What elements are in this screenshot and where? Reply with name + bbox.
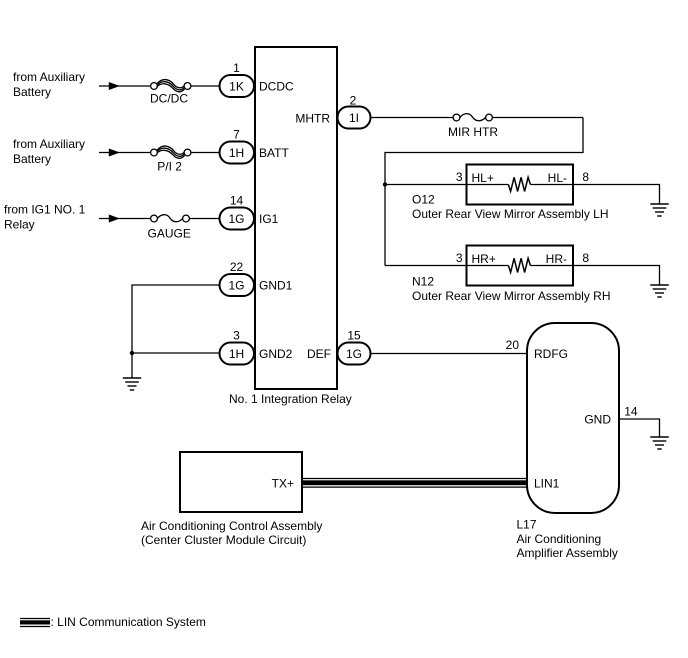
wire GND1 <box>132 285 220 353</box>
svg-text:HR+: HR+ <box>472 252 496 266</box>
wire IG1 feed <box>99 218 151 220</box>
wire MHTR to fuse <box>371 117 454 119</box>
svg-text:1G: 1G <box>346 347 362 361</box>
ground G2 <box>650 204 668 216</box>
svg-text:Outer Rear View Mirror Assembl: Outer Rear View Mirror Assembly RH <box>412 289 611 303</box>
svg-text:IG1: IG1 <box>259 212 279 226</box>
svg-text:from Auxiliary: from Auxiliary <box>13 70 85 84</box>
mirror RH box N12 <box>467 246 574 286</box>
svg-text:Outer Rear View Mirror Assembl: Outer Rear View Mirror Assembly LH <box>412 207 609 221</box>
svg-text:20: 20 <box>506 338 520 352</box>
wire MHTR down-left-down <box>385 118 583 266</box>
wire LH to ground <box>573 185 660 205</box>
svg-text:HR-: HR- <box>546 252 567 266</box>
junction mirror node <box>383 182 387 186</box>
svg-text:HL+: HL+ <box>472 171 494 185</box>
svg-text:1I: 1I <box>349 111 359 125</box>
wire to LH mirror <box>385 184 466 186</box>
svg-text:1: 1 <box>233 61 240 75</box>
svg-text:Air Conditioning Control Assem: Air Conditioning Control Assembly <box>141 519 322 533</box>
junction GND <box>130 351 134 355</box>
control assembly box <box>180 452 302 512</box>
svg-text:GND2: GND2 <box>259 347 293 361</box>
svg-text:GAUGE: GAUGE <box>148 227 191 241</box>
fuse GAUGE <box>151 215 190 222</box>
svg-text:Relay: Relay <box>4 218 35 232</box>
connector 1I <box>338 107 371 129</box>
svg-text:1K: 1K <box>229 79 244 93</box>
connector 1G (DEF) <box>338 343 371 365</box>
svg-text:DC/DC: DC/DC <box>150 92 188 106</box>
mirror LH box O12 <box>467 165 574 205</box>
wire LIN bus (striped) <box>302 479 527 488</box>
svg-text:3: 3 <box>456 251 463 265</box>
svg-text:1H: 1H <box>229 347 244 361</box>
svg-text:Battery: Battery <box>13 85 51 99</box>
wire GND2 <box>132 352 220 354</box>
svg-text:No. 1 Integration Relay: No. 1 Integration Relay <box>229 392 352 406</box>
relay U: No. 1 Integration Relay box <box>255 47 337 389</box>
ground G4 <box>650 437 668 449</box>
arrow IG1 feed <box>109 215 120 223</box>
wire to RH mirror <box>385 265 466 267</box>
svg-text:1G: 1G <box>228 212 244 226</box>
arrow DCDC feed <box>109 82 120 90</box>
svg-text:MHTR: MHTR <box>295 111 330 125</box>
wire RH to ground <box>573 266 660 286</box>
svg-text:LIN1: LIN1 <box>534 476 560 490</box>
svg-text:GND: GND <box>584 412 611 426</box>
wire to ground <box>131 353 133 378</box>
fuse MIR HTR <box>453 114 492 121</box>
svg-text:DCDC: DCDC <box>259 79 294 93</box>
amplifier L17 box <box>527 323 619 513</box>
svg-text:Amplifier Assembly: Amplifier Assembly <box>517 546 618 560</box>
svg-text:GND1: GND1 <box>259 278 293 292</box>
resistor heater LH <box>467 184 509 186</box>
svg-text:L17: L17 <box>517 518 537 532</box>
arrow BATT feed <box>109 149 120 157</box>
svg-text:TX+: TX+ <box>272 477 294 491</box>
connector 1H (GND2) <box>220 343 255 365</box>
ground G3 <box>650 285 668 297</box>
svg-text:15: 15 <box>347 329 361 343</box>
svg-text:1H: 1H <box>229 146 244 160</box>
svg-text:from Auxiliary: from Auxiliary <box>13 137 85 151</box>
wire BATT feed <box>99 152 151 154</box>
connector 1G (GND1) <box>220 274 255 296</box>
svg-text:8: 8 <box>582 170 589 184</box>
wire DCDC feed <box>99 85 151 87</box>
resistor heater RH <box>467 265 509 267</box>
svg-text:BATT: BATT <box>259 146 289 160</box>
svg-text:N12: N12 <box>412 275 434 289</box>
svg-text:(Center Cluster Module Circuit: (Center Cluster Module Circuit) <box>141 533 306 547</box>
svg-text:Air Conditioning: Air Conditioning <box>517 532 602 546</box>
svg-text:14: 14 <box>230 194 244 208</box>
connector 1G (IG1) <box>220 208 255 230</box>
connector 1H <box>220 142 255 164</box>
svg-text:14: 14 <box>624 405 638 419</box>
svg-text:2: 2 <box>350 94 357 108</box>
svg-text:DEF: DEF <box>307 347 331 361</box>
svg-text:22: 22 <box>230 260 244 274</box>
svg-text:3: 3 <box>456 170 463 184</box>
svg-text:RDFG: RDFG <box>534 347 568 361</box>
svg-text:from IG1 NO. 1: from IG1 NO. 1 <box>4 203 86 217</box>
fusible link DC/DC <box>151 80 191 92</box>
svg-text:: LIN Communication System: : LIN Communication System <box>51 615 206 629</box>
svg-text:HL-: HL- <box>548 171 567 185</box>
svg-text:Battery: Battery <box>13 152 51 166</box>
svg-text:MIR HTR: MIR HTR <box>448 125 498 139</box>
fusible link P/I 2 <box>151 146 191 158</box>
svg-text:3: 3 <box>233 329 240 343</box>
ground G1 <box>123 378 141 390</box>
svg-text:7: 7 <box>233 128 240 142</box>
connector 1K <box>220 75 255 97</box>
svg-text:1G: 1G <box>228 278 244 292</box>
svg-text:8: 8 <box>582 251 589 265</box>
wire GND to ground <box>619 419 660 437</box>
svg-text:P/I 2: P/I 2 <box>157 160 182 174</box>
legend LIN sample <box>20 619 50 627</box>
wire DEF to RDFG <box>371 353 528 355</box>
svg-text:O12: O12 <box>412 193 435 207</box>
